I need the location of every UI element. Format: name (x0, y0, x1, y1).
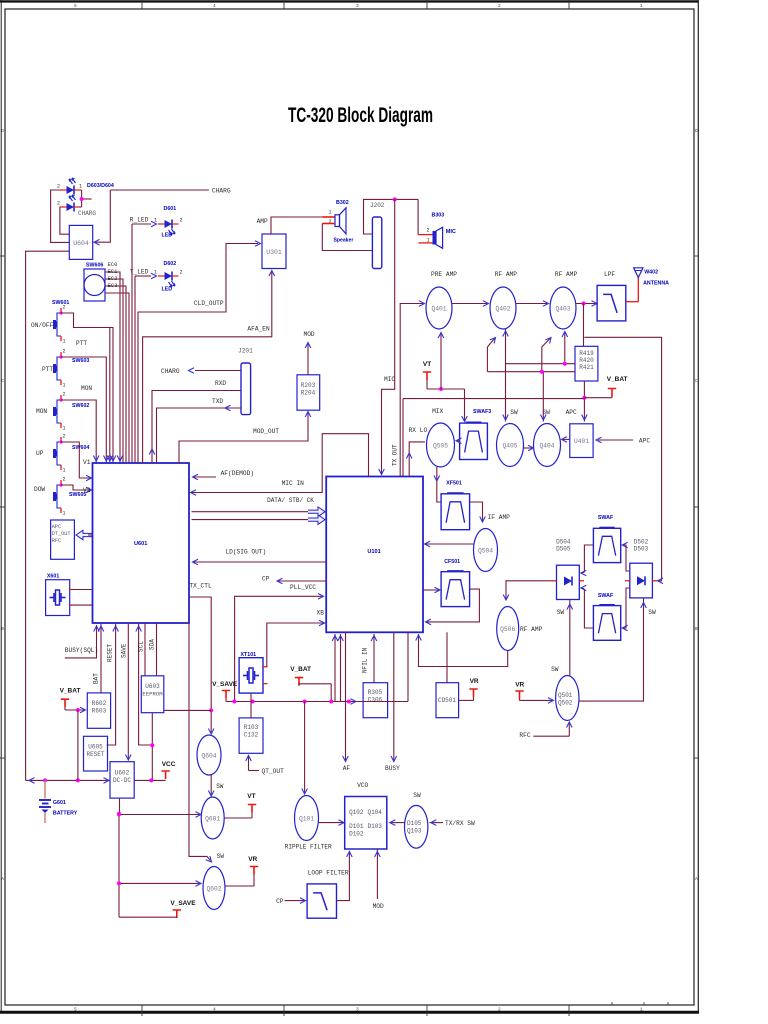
svg-text:UP: UP (36, 450, 44, 457)
wire antenna node to D502 (584, 337, 663, 583)
wire CHARG from J201 (161, 368, 241, 375)
svg-text:VR: VR (515, 682, 524, 689)
svg-text:AF(DEMOD): AF(DEMOD) (221, 470, 254, 477)
wire ON/OFF to U601 (61, 313, 116, 463)
wire XF501 to Q504 (470, 502, 511, 522)
svg-text:C132: C132 (244, 732, 259, 739)
label CHARG (top net) (212, 188, 231, 195)
power flag VR (Q602) (225, 856, 258, 886)
svg-text:EC2: EC2 (108, 275, 118, 282)
wire MON to U601 (61, 385, 99, 463)
label NFIL IN (362, 647, 369, 673)
IC U101 (PLL/IF IC) (326, 477, 423, 633)
wire D604 anode to U604 left pin (60, 207, 69, 234)
svg-text:5: 5 (74, 1007, 77, 1013)
svg-text:J201: J201 (238, 348, 253, 355)
wire MOD to VCO (373, 849, 384, 910)
LED D601 (R_LED) (154, 206, 183, 239)
wire Q604 to Q601 (208, 775, 223, 796)
svg-text:MOD: MOD (304, 331, 315, 338)
wire rail up to U101 pins (332, 634, 343, 702)
svg-text:TX/RX SW: TX/RX SW (445, 820, 475, 827)
svg-text:A: A (695, 876, 698, 882)
svg-text:RESET: RESET (107, 644, 114, 662)
svg-text:D505: D505 (556, 546, 571, 553)
svg-text:MOD_OUT: MOD_OUT (253, 428, 279, 435)
wire Q403 to LPF (576, 301, 598, 307)
transistor Q601 (201, 797, 224, 839)
wire QT_OUT (246, 755, 284, 775)
svg-text:IF AMP: IF AMP (488, 514, 511, 521)
svg-text:Q405: Q405 (502, 443, 517, 450)
filter SWAF (top) (593, 515, 620, 563)
svg-text:2: 2 (57, 184, 60, 190)
svg-text:QT_OUT: QT_OUT (262, 768, 285, 775)
svg-text:U603: U603 (145, 683, 160, 690)
svg-text:Q502: Q502 (558, 700, 573, 707)
svg-text:Q602: Q602 (206, 886, 221, 893)
transistor Q405 (SW) (497, 409, 524, 467)
svg-text:D: D (1, 128, 4, 134)
wire PTT to U601 (61, 340, 109, 463)
svg-text:R103: R103 (244, 724, 259, 731)
svg-text:D602: D602 (164, 261, 177, 267)
svg-text:4: 4 (213, 3, 216, 9)
svg-text:5: 5 (74, 3, 77, 9)
svg-text:2: 2 (498, 1007, 501, 1013)
svg-text:Q103: Q103 (407, 828, 422, 835)
svg-text:R305: R305 (368, 689, 383, 696)
transistor D105/Q103 (SW) (405, 792, 428, 848)
wire D501 to Q506 (503, 581, 551, 600)
svg-text:SW: SW (413, 792, 421, 799)
IC U605 (reset) (84, 736, 108, 771)
svg-text:RFC: RFC (519, 732, 530, 739)
svg-text:D502: D502 (634, 539, 649, 546)
wire TX_CTL U601 to Q604 (189, 597, 214, 734)
connector J201 (238, 348, 253, 415)
wire BUSY(SQL) to U601 (65, 625, 100, 658)
transistor Q404 (SW) (534, 409, 561, 467)
wire CHARG net to U604 right pin (94, 190, 209, 245)
power flag V_BAT (U101) (290, 666, 331, 702)
svg-text:VR: VR (470, 678, 479, 685)
power flag VT (Q601) (224, 793, 256, 818)
wire battery rail (26, 710, 109, 783)
resistors R203/R204 (297, 375, 320, 410)
label MIX (432, 408, 443, 415)
svg-text:1: 1 (63, 383, 66, 389)
wire SWAF bottom to D502 (622, 588, 630, 631)
wire XB U101 to XT101 (267, 620, 326, 667)
svg-text:MOD: MOD (373, 903, 384, 910)
node CHARG junction at D603/D604 cathodes (79, 190, 92, 207)
svg-text:MIC: MIC (446, 229, 456, 235)
svg-text:V_SAVE: V_SAVE (170, 900, 196, 907)
IC U602 (DC-DC) (110, 762, 134, 798)
svg-text:B: B (1, 626, 4, 632)
IC U603 (EEPROM) (141, 676, 164, 713)
svg-text:Q501: Q501 (558, 692, 573, 699)
svg-text:SW: SW (648, 609, 656, 616)
wire Q402 angled base feed (487, 336, 497, 372)
wire MOD up from R203 (304, 331, 315, 375)
svg-text:PLL_VCC: PLL_VCC (290, 584, 316, 591)
label TX OUT (392, 444, 399, 466)
svg-text:VCO: VCO (357, 782, 368, 789)
wire XT101 pin to XB (266, 666, 268, 668)
wire TX/RX SW (430, 820, 475, 827)
svg-text:Q504: Q504 (478, 548, 493, 555)
microphone B303 (418, 199, 456, 248)
wire V2 to U601 left (61, 485, 92, 494)
svg-text:1: 1 (640, 1007, 643, 1013)
svg-text:U101: U101 (367, 549, 380, 555)
wire AF out (343, 632, 351, 772)
svg-text:R_LED: R_LED (130, 217, 149, 224)
svg-text:D504: D504 (556, 539, 571, 546)
svg-text:Q506: Q506 (500, 626, 515, 633)
wire PLL_VCC (235, 594, 324, 702)
IC CD501 (436, 683, 459, 718)
svg-text:Q505: Q505 (433, 443, 448, 450)
switch SW605 (DOWN) (34, 477, 86, 517)
wire SWAF3 to Q505 (456, 438, 462, 444)
svg-text:TC-320 Block Diagram: TC-320 Block Diagram (288, 103, 433, 127)
svg-text:SCL: SCL (138, 641, 145, 652)
power flag VCC (134, 761, 176, 782)
svg-text:LED: LED (162, 287, 173, 293)
svg-text:PRE AMP: PRE AMP (431, 271, 457, 278)
svg-text:D101: D101 (349, 823, 364, 830)
svg-text:RF AMP: RF AMP (555, 271, 578, 278)
svg-text:B302: B302 (336, 200, 349, 206)
wire VT to Q401 base (438, 333, 444, 390)
filter LPF (597, 271, 626, 321)
svg-text:V_BAT: V_BAT (607, 376, 628, 383)
switch SW601 (ON/OFF) (31, 300, 69, 345)
switch SW604 (UP) (36, 434, 89, 474)
svg-text:D105: D105 (407, 820, 422, 827)
svg-text:U601: U601 (134, 541, 147, 547)
svg-text:XT101: XT101 (241, 652, 257, 658)
svg-text:ON/OFF: ON/OFF (31, 322, 54, 329)
label CHARG (near diodes) (78, 210, 96, 217)
label PLL_VCC (290, 584, 316, 591)
wire rail to U101 pin x408 (407, 632, 409, 701)
wire R_LED (130, 217, 157, 464)
wire Q101 to VCO (319, 820, 344, 826)
svg-text:2: 2 (63, 349, 66, 355)
power flag V_SAVE (XT101) (212, 681, 238, 702)
svg-text:2: 2 (63, 434, 66, 440)
svg-text:MIC IN: MIC IN (282, 480, 305, 487)
wire BAT pin (93, 623, 104, 693)
svg-text:MON: MON (81, 385, 92, 392)
svg-text:RESET: RESET (86, 751, 104, 758)
svg-text:XB: XB (317, 610, 325, 617)
IC U401 (570, 424, 593, 458)
transistor Q101 (ripple filter) (285, 796, 332, 851)
svg-text:BUSY: BUSY (385, 765, 400, 772)
svg-text:EEPROM: EEPROM (142, 691, 162, 698)
wire SAVE pin (121, 623, 132, 760)
svg-text:1: 1 (640, 3, 643, 9)
IC U604 (69, 225, 92, 259)
svg-text:SW603: SW603 (72, 358, 89, 364)
svg-text:BAT: BAT (93, 673, 100, 684)
label TX_CTL (189, 583, 212, 590)
battery G601 (39, 780, 78, 823)
svg-text:VT: VT (247, 793, 255, 800)
wire R421 to U401 (582, 381, 588, 422)
svg-text:VCC: VCC (162, 761, 176, 768)
wire CD501 to U101 (446, 632, 448, 682)
svg-text:Q404: Q404 (539, 443, 554, 450)
wire D50x to SWAF bottom (581, 585, 594, 628)
wire Q402 to Q403 (516, 301, 549, 307)
svg-text:DC-DC: DC-DC (113, 777, 131, 784)
filter R103/C132 (239, 718, 263, 753)
switch SW603 (PTT) (42, 349, 89, 389)
svg-text:4: 4 (213, 1007, 216, 1013)
svg-text:SW604: SW604 (72, 445, 89, 451)
svg-text:Q104: Q104 (368, 809, 383, 816)
svg-text:RX LO: RX LO (409, 427, 428, 434)
filter LOOP FILTER (307, 884, 336, 918)
wire D105 to VCO (390, 820, 405, 826)
svg-text:Q403: Q403 (555, 306, 570, 313)
svg-text:APC: APC (566, 409, 577, 416)
wire AF(DEMOD) into U601 (193, 470, 255, 480)
svg-text:NFIL IN: NFIL IN (362, 647, 369, 673)
svg-text:MIC: MIC (384, 376, 395, 383)
label AFA_EN (247, 326, 270, 333)
svg-text:CP: CP (262, 576, 270, 583)
wire XT101 to R103 (250, 693, 252, 718)
svg-text:X601: X601 (47, 574, 59, 580)
label XB (317, 610, 325, 617)
crystal X601 (46, 574, 70, 616)
svg-text:U301: U301 (266, 249, 282, 256)
svg-text:1: 1 (63, 339, 66, 345)
wire CP stub (262, 576, 326, 584)
svg-text:D: D (695, 128, 698, 134)
svg-text:Q402: Q402 (495, 306, 510, 313)
wire CP to loop filter (276, 898, 305, 905)
wire Q505 to XF501 (434, 467, 441, 502)
svg-text:SWAF: SWAF (598, 593, 614, 599)
transistor Q504 (IF AMP) (474, 529, 498, 572)
svg-text:Speaker: Speaker (334, 238, 354, 244)
svg-text:Q102: Q102 (349, 809, 364, 816)
wire SWAF top to D502 (622, 542, 630, 571)
wire rail1 to R419 (506, 362, 576, 366)
svg-text:1: 1 (328, 210, 331, 216)
wire RFC to Q501 (519, 722, 572, 739)
wire U602 out to SW transistors (117, 798, 121, 917)
svg-text:SW: SW (216, 783, 224, 790)
svg-text:DOW: DOW (34, 486, 45, 493)
svg-text:RXD: RXD (215, 380, 226, 387)
svg-text:1: 1 (426, 238, 429, 244)
svg-text:2: 2 (426, 228, 429, 234)
svg-text:1: 1 (79, 184, 82, 190)
wire Q403 node down to R419 (583, 304, 585, 347)
filter SWAF (bottom) (593, 593, 620, 640)
svg-text:D103: D103 (368, 823, 383, 830)
svg-text:Q601: Q601 (205, 816, 220, 823)
speaker B302 (328, 200, 353, 244)
svg-text:SW: SW (510, 409, 518, 416)
wire D50x bottom to Q501 (551, 600, 573, 676)
wire Q402 base column (503, 329, 509, 422)
svg-text:SW: SW (551, 666, 559, 673)
connector APC/DT_OUT/RFC (51, 520, 75, 559)
transistor Q604 (197, 735, 221, 775)
wire Q506 to U101 (416, 634, 508, 667)
transistor Q505 (MIX) (427, 423, 455, 467)
svg-text:AFA_EN: AFA_EN (247, 326, 270, 333)
svg-text:U605: U605 (88, 744, 103, 751)
svg-text:R204: R204 (301, 390, 316, 397)
resistors R419/R420/R421 (575, 346, 598, 381)
svg-text:D102: D102 (349, 831, 364, 838)
wire V_BAT to Q101 (302, 702, 308, 795)
svg-text:MON: MON (36, 408, 47, 415)
wire APC input (596, 437, 650, 444)
svg-text:SDA: SDA (149, 639, 156, 650)
svg-text:R603: R603 (92, 708, 107, 715)
svg-text:SWAF: SWAF (598, 515, 614, 521)
svg-text:U602: U602 (115, 770, 130, 777)
wire V_SAVE rail (226, 699, 408, 705)
svg-text:CHARG: CHARG (78, 210, 96, 217)
svg-text:EC0: EC0 (108, 261, 118, 268)
svg-text:V_SAVE: V_SAVE (212, 681, 238, 688)
svg-text:EC3: EC3 (108, 282, 118, 289)
LED D602 (T_LED) (154, 261, 183, 293)
svg-text:D503: D503 (634, 546, 649, 553)
power flag V_SAVE (bottom) (119, 900, 196, 918)
svg-text:V_BAT: V_BAT (60, 688, 81, 695)
wire V1 to U601 left (61, 442, 92, 481)
svg-text:BUSY(SQL): BUSY(SQL) (65, 647, 98, 654)
svg-text:2: 2 (63, 477, 66, 483)
svg-text:R420: R420 (579, 357, 594, 364)
svg-text:B303: B303 (432, 213, 445, 219)
wire U301 to speaker (271, 217, 335, 234)
svg-text:A: A (1, 876, 4, 882)
svg-text:LOOP FILTER: LOOP FILTER (308, 870, 349, 877)
svg-text:2: 2 (63, 392, 66, 398)
svg-text:AMP: AMP (257, 218, 268, 225)
svg-text:C: C (1, 378, 4, 384)
svg-text:R421: R421 (579, 364, 594, 371)
svg-text:C: C (695, 378, 698, 384)
wire D502 bottom to Q501 output (579, 598, 646, 701)
svg-text:TXD: TXD (212, 398, 223, 405)
svg-text:Q604: Q604 (201, 753, 216, 760)
svg-text:LD(SIG OUT): LD(SIG OUT) (225, 549, 266, 556)
svg-text:XF501: XF501 (446, 481, 462, 487)
wire U602 to Q601 (117, 812, 201, 818)
svg-text:CF501: CF501 (444, 559, 460, 565)
label MIC (384, 376, 395, 383)
bus DATA/STB/CK (192, 497, 326, 524)
wire U101 to CF501 (423, 587, 440, 593)
svg-text:RFC: RFC (52, 538, 61, 544)
svg-text:G601: G601 (53, 800, 66, 806)
transistor Q602 (203, 867, 225, 910)
title TC-320 Block Diagram (288, 103, 433, 127)
svg-text:APC: APC (52, 524, 61, 530)
svg-text:PTT: PTT (76, 340, 87, 347)
svg-text:PTT: PTT (42, 366, 53, 373)
svg-text:2: 2 (180, 218, 183, 224)
wire battery rail up left side to U604 (26, 251, 70, 780)
diode switch D502/D503 (625, 539, 657, 598)
wire rail2 to R419 (487, 370, 575, 374)
svg-text:CLD_OUTP: CLD_OUTP (194, 300, 224, 307)
transistor Q401 (PRE AMP) (426, 271, 457, 329)
wire loop filter to VCO (337, 851, 353, 901)
wire SCL pin (138, 623, 146, 676)
svg-text:LED: LED (162, 233, 173, 239)
wire AFA_EN U601 to U301 bottom (143, 271, 275, 464)
wire D50x to SWAF top (581, 545, 594, 576)
transistor Q501/Q502 (556, 676, 579, 721)
wire TXD to U601 (157, 398, 242, 463)
svg-text:AF: AF (343, 765, 351, 772)
switch SW602 (MON) (36, 392, 89, 432)
svg-text:DT_OUT: DT_OUT (52, 531, 71, 537)
wire Q405 to Q404 (524, 445, 534, 451)
svg-text:SAVE: SAVE (121, 643, 128, 658)
svg-text:2: 2 (57, 201, 60, 207)
svg-text:C306: C306 (368, 697, 383, 704)
power flag VR (CD501) (459, 678, 479, 700)
power flag VR (Q501) (515, 682, 553, 704)
filter XF501 (441, 481, 470, 530)
svg-text:V_BAT: V_BAT (290, 666, 311, 673)
svg-text:J202: J202 (370, 202, 385, 209)
svg-text:SW602: SW602 (72, 403, 89, 409)
svg-text:3: 3 (356, 1007, 359, 1013)
svg-text:D601: D601 (164, 206, 177, 212)
IC U301 (audio amp) (262, 234, 286, 269)
power flag V_BAT (RF) (584, 376, 627, 398)
LED pair D603/D604 (57, 178, 114, 212)
wire MIC vertical to U101 (379, 199, 395, 474)
label CLD_OUTP (194, 300, 224, 307)
wire LD(SIG OUT) (193, 549, 326, 565)
wire TX OUT to Q401 (400, 301, 424, 477)
svg-text:CHARG: CHARG (212, 188, 231, 195)
svg-text:R203: R203 (301, 382, 316, 389)
svg-text:RF AMP: RF AMP (520, 626, 543, 633)
crystal XT101 (239, 652, 267, 693)
svg-text:BATTERY: BATTERY (53, 811, 78, 817)
svg-text:DATA/ STB/ CK: DATA/ STB/ CK (267, 497, 314, 504)
wire Q504 to U101 (425, 541, 474, 547)
wire J202 top pin (364, 197, 419, 234)
label APC (U401) (566, 409, 577, 416)
wire MIC IN U601 to U101 (189, 434, 369, 496)
bus arrow U601 to APC box (76, 530, 93, 540)
wire Q403 emitter column (562, 332, 568, 364)
svg-text:LPF: LPF (604, 271, 615, 278)
